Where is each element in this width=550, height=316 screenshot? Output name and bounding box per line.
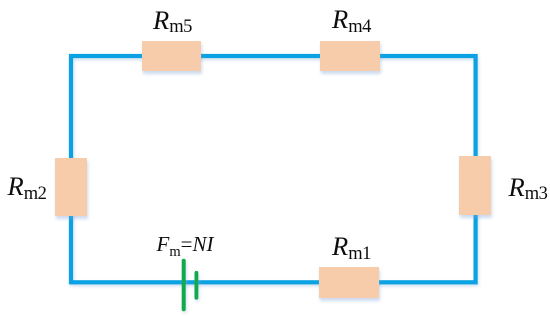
resistor Rm4 [320, 41, 380, 71]
resistor Rm3 [459, 156, 491, 215]
MMF source F_m long plate [182, 261, 186, 309]
wire [71, 56, 476, 282]
label Rm1 [332, 233, 371, 260]
label Rm3 [509, 174, 548, 201]
resistor Rm1 [319, 267, 379, 298]
label Rm5 [153, 7, 192, 34]
label Rm4 [332, 6, 371, 33]
label Rm2 [8, 173, 47, 200]
resistor Rm2 [55, 158, 87, 216]
label Fm=NI [157, 234, 214, 255]
resistor Rm5 [142, 41, 201, 71]
MMF source F_m short plate [194, 273, 198, 298]
